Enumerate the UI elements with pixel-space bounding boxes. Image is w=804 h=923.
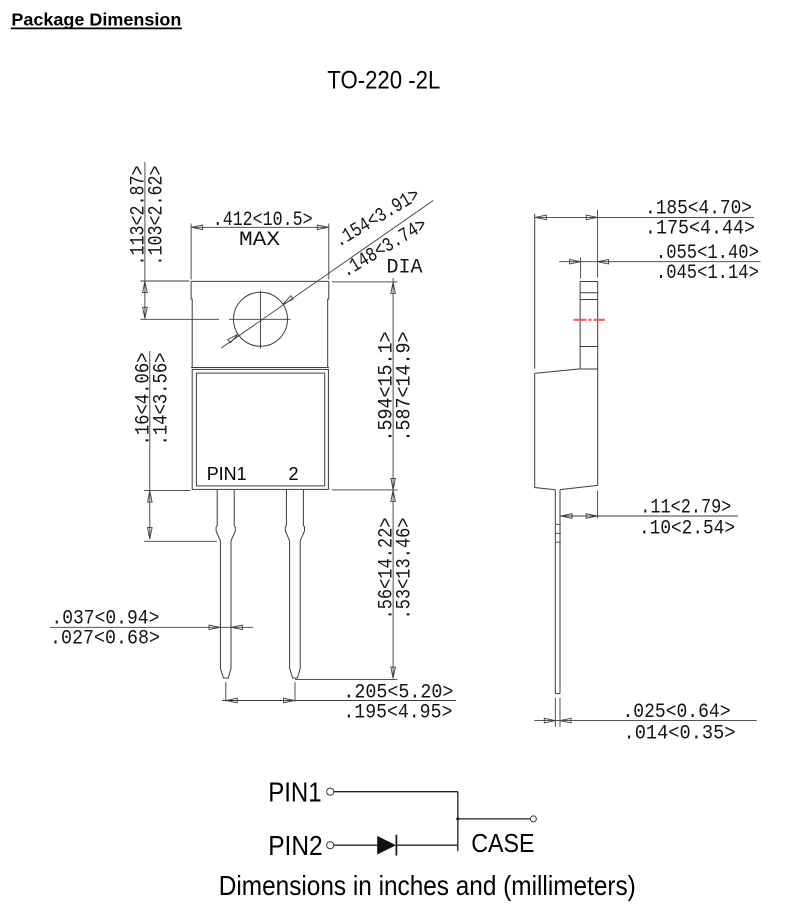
front view: TO-220 mounting tab outline [191,281,329,367]
svg-text:PIN2: PIN2 [268,830,323,861]
extension line tab-top to right [332,281,398,283]
arrowhead on hole leader lower-left [228,334,238,343]
front view: plastic body inner outline [196,373,324,486]
extension line shoulder-end to left [144,540,217,542]
svg-text:.587<14.9>: .587<14.9> [393,332,416,442]
extension lines below side pin tip [555,698,560,727]
arrowhead up at tab top on .113 dimension [143,282,148,293]
side view: pin taper tick marks [555,524,561,542]
side view: front face line / extension [534,214,536,369]
svg-text:.14<3.56>: .14<3.56> [151,353,174,446]
svg-text:CASE: CASE [471,828,534,858]
arrowhead left on .185 dimension [535,215,546,220]
extension line tab front face [580,257,582,278]
wire PIN1 to junction column [334,791,458,793]
wire junction to CASE terminal [458,818,531,820]
svg-text:.103<2.62>: .103<2.62> [146,166,169,266]
schematic: PIN1 terminal circle [327,788,334,795]
svg-text:MAX: MAX [239,229,280,252]
diode D1 anode triangle [377,836,396,855]
arrowhead down at hole center on .113 dimension [143,307,148,318]
side view: plastic body outline [535,369,598,490]
arrowhead pointing left at tab back on .055 dimension [598,259,609,264]
arrowhead down at shoulder end on .16 dimension [148,528,153,539]
node junction on column [456,817,459,820]
svg-text:.53<13.46>: .53<13.46> [393,518,416,620]
arrowhead down at pin tip on .56 dimension [391,667,396,678]
wire PIN2 to diode anode [334,844,377,846]
svg-text:.195<4.95>: .195<4.95> [343,701,452,724]
svg-text:.175<4.44>: .175<4.44> [645,218,755,241]
arrowhead pointing right at pin2 center [284,698,295,703]
extension lines below pin tips [226,682,295,702]
wire vertical junction column [457,792,459,852]
dimension .412(10.5) MAX width: extension lines [191,224,329,280]
svg-text:PIN1: PIN1 [207,464,247,484]
svg-text:.045<1.14>: .045<1.14> [656,262,759,285]
svg-text:.014<0.35>: .014<0.35> [624,722,736,745]
diode D1 cathode bar [395,835,397,856]
extension line tab-top to left [141,280,190,282]
dimension .055(1.40)/.045(1.14): dimension line with fraction bar [559,261,760,263]
svg-text:Package Dimension: Package Dimension [11,10,181,30]
arrowhead right on .185 dimension [586,215,597,220]
extension line body-bottom to right [332,489,398,491]
arrowhead pointing right at tab front on .055 dimension [570,259,581,264]
arrowhead pointing right at back face on .11 dimension [586,514,597,519]
schematic: CASE terminal circle [530,816,536,822]
front view: pin 1 lead outline [216,489,235,678]
front view: mounting hole [234,292,288,346]
side view: pin lead [555,490,560,694]
arrowhead pointing right at pin1 left edge [209,625,220,630]
dimension .205(5.20)/.195(4.95): pin pitch dimension line with fraction bar [222,700,456,702]
svg-text:.025<0.64>: .025<0.64> [623,701,731,724]
dimension .025(0.64)/.014(0.35): dimension line with fraction bar [534,720,756,722]
dimension .412(10.5) MAX: dimension line [191,226,329,228]
svg-text:PIN1: PIN1 [268,777,321,808]
svg-text:2: 2 [289,464,299,484]
dimension .11(2.79)/.10(2.54): dimension line with fraction bar [561,515,739,517]
dimension .037(0.94)/.027(0.68): lead width dimension line [50,626,253,628]
front view: hole crosshair centerlines [141,291,291,349]
schematic: PIN2 terminal circle [327,842,334,849]
arrowhead pointing left at pin1 center [226,698,237,703]
wire diode to junction column [396,844,457,846]
front view: plastic body outer outline [192,369,328,489]
dimension .594(15.1)/.587(14.9) and .56(14.22)/.53(13.46): vertical dimension line [392,278,394,679]
dimension .16(4.06)/.14(3.56): vertical dimension line [149,351,151,539]
front view: pin 2 lead outline [285,489,304,678]
front view: hole diameter leader line [221,201,433,349]
arrowhead pointing left at pin1 right edge [231,625,242,630]
dimension .113(2.87)/.103(2.62): vertical dimension line with fraction bar [144,162,146,319]
arrowhead on hole leader upper-right [283,296,293,305]
svg-text:TO-220 -2L: TO-220 -2L [327,66,440,94]
extension line pin-tip level to right [295,678,398,680]
arrowhead up at body bottom on .16 dimension [148,491,153,502]
svg-text:.10<2.54>: .10<2.54> [639,518,735,541]
arrowhead up at body bottom on .56 dimension [391,490,396,501]
arrowhead pointing left at pin on .11 dimension [561,514,572,519]
arrowhead pointing right at pin left on .025 dimension [544,718,555,723]
extension line back face below body [597,491,599,519]
title: Package Dimension [11,10,182,30]
arrowhead right of .412 dimension [317,225,328,230]
svg-text:.11<2.79>: .11<2.79> [640,497,731,520]
side view: red hole centerline [573,319,604,321]
extension line body-bottom to left [144,490,191,492]
extension line back face upper [597,210,599,278]
arrowhead down at body bottom on .594 dimension [391,478,396,489]
dimension .185(4.70)/.175(4.44): dimension line with fraction bar [535,216,754,218]
arrowhead pointing left at pin right on .025 dimension [560,718,571,723]
side view: metal tab outline [580,282,598,486]
arrowhead left of .412 dimension [192,225,203,230]
svg-text:Dimensions in inches and (mill: Dimensions in inches and (millimeters) [219,870,636,901]
svg-text:.027<0.68>: .027<0.68> [50,628,160,651]
svg-text:DIA: DIA [387,256,423,279]
side view: tab detail lines [580,293,598,347]
arrowhead up at tab top on .594 dimension [391,282,396,293]
